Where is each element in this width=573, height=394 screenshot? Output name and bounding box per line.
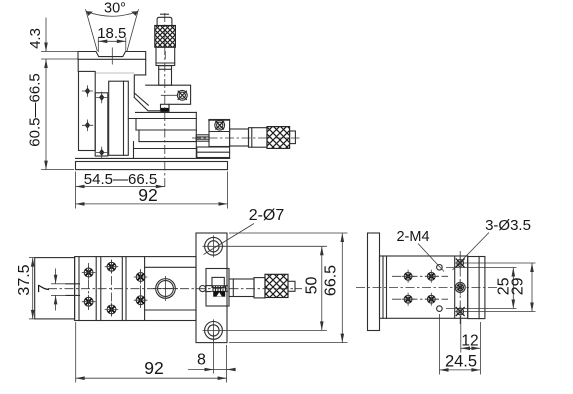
strip centerline 1: [88, 263, 90, 312]
diamond marker A2: [82, 120, 93, 132]
spindle tip and leadscrew detail: [200, 277, 229, 296]
svg-text:2-Ø7: 2-Ø7: [249, 207, 285, 224]
faint body top edge: [95, 72, 134, 74]
barrel: [230, 129, 249, 146]
carriage plate B: [95, 93, 108, 156]
dimension 30 degrees: [86, 1, 139, 52]
carriage plate A: [79, 71, 96, 150]
spindle: [196, 135, 209, 141]
hole D1 (diam 3.5 top): [454, 257, 466, 269]
row centerline upper: [392, 275, 448, 277]
main body outline (top view): [75, 257, 196, 321]
top plate with dovetail notch: [78, 52, 146, 75]
hole column centerline: [459, 251, 461, 324]
side view centerline: [356, 287, 497, 289]
svg-text:2-M4: 2-M4: [396, 229, 429, 245]
dimension 25: [446, 268, 517, 309]
hole D2 (diam 3.5 middle): [455, 280, 465, 295]
label 3-diam3.5 with leader: [453, 217, 531, 270]
stem: [159, 66, 172, 86]
svg-text:37.5: 37.5: [16, 264, 33, 295]
tapped hole M4 upper: [437, 265, 443, 271]
row centerline lower: [392, 298, 448, 300]
dimension 50: [222, 246, 327, 330]
dimension 60.5-66.5: [27, 59, 75, 170]
dimension 92 (front): [76, 172, 228, 209]
screw T2: [82, 295, 96, 309]
dimension 37.5: [16, 258, 36, 319]
dimension 4.3: [27, 18, 78, 60]
svg-text:12: 12: [461, 333, 478, 350]
knurled thimble: [155, 26, 176, 48]
screw T1: [82, 266, 96, 280]
bracket screw S1: [177, 90, 187, 100]
dimension 29: [466, 263, 536, 312]
svg-text:18.5: 18.5: [97, 25, 126, 42]
dimension 66.5: [229, 233, 348, 343]
body block (side): [380, 256, 468, 318]
barrel: [156, 47, 175, 65]
screw T3: [105, 260, 119, 274]
svg-text:4.3: 4.3: [27, 28, 44, 49]
block screw S2: [215, 120, 225, 130]
mounting hole H2: [203, 319, 225, 341]
center bore circle: [153, 276, 178, 301]
svg-text:29: 29: [510, 277, 527, 295]
svg-text:60.5—66.5: 60.5—66.5: [27, 73, 44, 146]
knurled thimble: [267, 127, 290, 149]
base upper line: [76, 157, 230, 159]
tapped hole M4 lower: [437, 306, 443, 312]
horizontal micrometer M3 (top view): [229, 274, 295, 298]
dimension 92 (top view): [76, 322, 227, 383]
svg-text:92: 92: [144, 358, 163, 378]
svg-text:3-Ø3.5: 3-Ø3.5: [485, 217, 531, 234]
diamond marker A1: [82, 85, 93, 97]
horizontal micrometer M2 (front): [196, 120, 295, 158]
carriage strip edges: [79, 257, 145, 321]
dimension 24.5: [440, 314, 481, 375]
strip centerline 3: [140, 269, 142, 308]
vertical micrometer M1: [155, 14, 176, 85]
dimension 18.5: [97, 25, 126, 52]
flange plate (side): [368, 233, 380, 331]
sleeve: [249, 128, 268, 148]
stage table (left block): [35, 258, 75, 319]
vertical centerline of M1: [164, 13, 166, 189]
dimension 12: [461, 316, 481, 375]
screw R1: [402, 270, 415, 283]
screw T4: [105, 303, 119, 317]
base plate (top view): [196, 233, 227, 343]
node cross on spindle axis: [161, 94, 178, 96]
end cap: [290, 131, 296, 144]
rear plate (side): [468, 257, 485, 319]
upper body left edge: [77, 59, 79, 71]
stage block lines: [145, 267, 196, 310]
mount block: [209, 120, 230, 147]
carriage plate C: [109, 81, 129, 155]
stage plate edge (side): [454, 256, 456, 318]
svg-text:7: 7: [36, 284, 53, 293]
screw R2: [425, 270, 438, 283]
screw T6: [134, 293, 148, 307]
ratchet cap: [157, 17, 172, 25]
M2 centerline: [192, 137, 300, 139]
label 2-M4 with leader: [396, 229, 444, 272]
mounting hole H1 (2-diam7): [203, 235, 225, 257]
svg-text:24.5: 24.5: [445, 353, 477, 371]
hole D3 (diam 3.5 bottom): [454, 306, 466, 318]
dovetail tongue: [66, 284, 80, 296]
dimension 8: [188, 334, 234, 374]
svg-text:66.5: 66.5: [323, 265, 340, 296]
diamond marker B2: [96, 147, 107, 159]
svg-text:92: 92: [138, 185, 157, 205]
screw T5: [134, 270, 148, 284]
micrometer bracket block (top view): [206, 269, 229, 307]
base plate (front view): [76, 162, 228, 170]
spindle tip block: [161, 104, 170, 111]
dimension 7: [36, 269, 67, 311]
diamond marker B1: [96, 92, 107, 104]
svg-text:8: 8: [197, 352, 206, 369]
screw R4: [425, 293, 438, 306]
notch center tick: [111, 48, 113, 65]
screw R3: [402, 293, 415, 306]
svg-text:30°: 30°: [104, 1, 126, 17]
body slab lines: [128, 112, 196, 158]
svg-text:50: 50: [304, 277, 321, 295]
strip centerline 2: [111, 260, 113, 317]
micrometer bracket (front): [134, 85, 190, 111]
dimension 54.5-66.5: [76, 171, 165, 209]
label 2-diam7 with leader: [204, 207, 285, 255]
upper body step edge: [134, 75, 145, 98]
mount base plate: [197, 147, 230, 158]
main horizontal centerline (top view): [48, 288, 302, 290]
